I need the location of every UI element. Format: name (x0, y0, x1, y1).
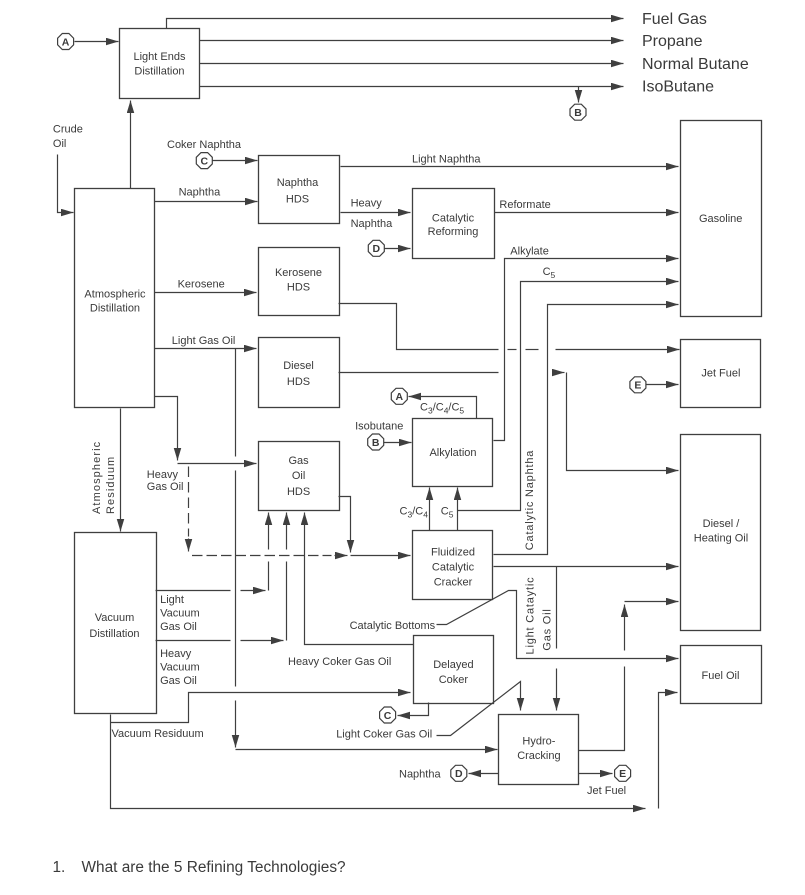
PRODUCT LABELS (large) (642, 11, 749, 96)
wire Heavy Naphtha (341, 212, 411, 214)
svg-text:1.: 1. (53, 859, 66, 876)
box Diesel / Heating Oil (681, 435, 761, 631)
wire Diesel to Diesel/Heating Oil (567, 373, 679, 471)
box Hydro-Cracking (499, 715, 579, 785)
svg-text:A: A (62, 36, 70, 48)
svg-text:Fuel Gas: Fuel Gas (642, 11, 707, 28)
svg-text:Light Ends: Light Ends (134, 51, 186, 63)
wire Normal Butane (200, 63, 624, 65)
svg-text:Heating Oil: Heating Oil (694, 533, 748, 545)
wire C3/C4 up to Alkylation (429, 488, 431, 531)
wire up to Fuel Oil (659, 693, 678, 809)
svg-text:D: D (373, 243, 381, 255)
svg-text:Gas Oil: Gas Oil (147, 481, 184, 493)
svg-text:E: E (634, 380, 641, 392)
wire Heavy Gas Oil to Gas Oil HDS (178, 463, 257, 465)
wire Heavy Gas Oil exit (155, 397, 178, 461)
svg-text:Alkylation: Alkylation (429, 447, 476, 459)
svg-text:Heavy: Heavy (147, 469, 179, 481)
wire E to Jet Fuel (647, 384, 679, 386)
svg-text:Gas Oil: Gas Oil (160, 621, 197, 633)
BOX LABELS (84, 51, 748, 762)
svg-text:Catalytic: Catalytic (432, 562, 475, 574)
svg-text:Vacuum Residuum: Vacuum Residuum (112, 728, 204, 740)
svg-text:HDS: HDS (287, 486, 310, 498)
wire jet dash 1 (508, 349, 517, 351)
wire FCC to Hydro-Cracking (556, 567, 558, 649)
box Gasoline (681, 121, 762, 317)
wire Gas Oil HDS out to junction (339, 497, 351, 553)
box Vacuum Distillation (75, 533, 157, 714)
ROTATED LABELS (91, 441, 554, 655)
wire dashed horizontal (192, 555, 332, 557)
svg-text:Fuel Oil: Fuel Oil (702, 670, 740, 682)
svg-text:Jet Fuel: Jet Fuel (701, 368, 740, 380)
node A top (58, 34, 74, 50)
svg-text:Light: Light (160, 594, 184, 606)
wire C to Naphtha HDS (213, 160, 258, 162)
node B top (570, 104, 586, 120)
svg-text:Coker: Coker (439, 674, 469, 686)
wire Kerosene HDS out (339, 304, 499, 350)
wire Crude Oil feed (58, 155, 74, 213)
svg-text:Light Gas Oil: Light Gas Oil (172, 335, 236, 347)
svg-text:Vacuum: Vacuum (160, 608, 200, 620)
wire Heavy Vacuum Gas Oil (156, 640, 231, 642)
svg-text:Naphtha: Naphtha (399, 769, 441, 781)
wire Naphtha (155, 201, 258, 203)
wire drop to B (578, 87, 580, 103)
wire dashed vertical arrowhead (188, 539, 190, 552)
wire Fuel Gas (167, 19, 624, 29)
svg-text:HDS: HDS (287, 376, 310, 388)
svg-text:Atmospheric: Atmospheric (84, 289, 146, 301)
svg-text:Hydro-: Hydro- (522, 736, 555, 748)
svg-text:Fluidized: Fluidized (431, 547, 475, 559)
svg-text:Heavy Coker Gas Oil: Heavy Coker Gas Oil (288, 656, 391, 668)
svg-text:Reformate: Reformate (499, 199, 550, 211)
node A alkylation (391, 388, 407, 404)
wire Atmospheric to Vacuum Distillation (120, 409, 122, 532)
svg-text:B: B (574, 107, 582, 119)
node C bottom (380, 707, 396, 723)
wire IsoButane (200, 86, 624, 88)
svg-text:Coker Naphtha: Coker Naphtha (167, 139, 242, 151)
wire D to Catalytic Reforming (385, 248, 411, 250)
wire A to Light Ends Distillation (75, 41, 119, 43)
svg-text:B: B (372, 437, 380, 449)
wire Alkylation out to A (409, 397, 477, 419)
wire LVGO up to Gas Oil HDS (268, 562, 270, 591)
wire Catalytic Naphtha to Gasoline (494, 305, 679, 555)
svg-text:Heavy: Heavy (160, 648, 192, 660)
svg-text:Gas Oil: Gas Oil (542, 608, 554, 650)
box Alkylation (413, 419, 493, 487)
svg-text:Catalytic: Catalytic (432, 213, 475, 225)
wire to Hydro-Cracking left (236, 749, 498, 751)
svg-text:Light Naphtha: Light Naphtha (412, 154, 481, 166)
svg-text:Diesel /: Diesel / (703, 518, 741, 530)
svg-text:Kerosene: Kerosene (275, 267, 322, 279)
node D reforming (368, 240, 384, 256)
svg-text:Kerosene: Kerosene (178, 279, 225, 291)
wire Kerosene (155, 292, 257, 294)
wire Light Naphtha to Gasoline (341, 166, 679, 168)
box Catalytic Reforming (413, 189, 495, 259)
svg-text:Distillation: Distillation (90, 303, 140, 315)
svg-text:Catalytic Bottoms: Catalytic Bottoms (350, 620, 436, 632)
wire jet dash 2 (526, 349, 539, 351)
box Jet Fuel (681, 340, 761, 408)
svg-text:E: E (619, 768, 626, 780)
box Diesel HDS (259, 338, 340, 408)
node D bottom (451, 765, 467, 781)
node E jet (630, 377, 646, 393)
svg-text:What are the 5 Refining Techno: What are the 5 Refining Technologies? (82, 859, 346, 876)
node E bottom (615, 765, 631, 781)
BOXES (75, 29, 762, 785)
wire dashed junction arrowhead (335, 555, 348, 557)
wire Atmospheric Distillation to Light Ends (130, 101, 132, 189)
svg-text:Residuum: Residuum (105, 456, 117, 514)
svg-text:Delayed: Delayed (433, 659, 473, 671)
svg-text:C3/C4/C5: C3/C4/C5 (420, 402, 464, 416)
wire C5 up to Alkylation (457, 488, 459, 531)
box Fluidized Catalytic Cracker (413, 531, 493, 600)
wire Heavy Coker Gas Oil (305, 513, 414, 645)
svg-text:Gas Oil: Gas Oil (160, 675, 197, 687)
svg-text:Crude: Crude (53, 124, 83, 136)
svg-text:Distillation: Distillation (89, 628, 139, 640)
svg-text:Naphtha: Naphtha (277, 177, 319, 189)
wire Hydro-Cracking to Diesel/Heating Oil (579, 667, 625, 751)
svg-text:D: D (455, 768, 463, 780)
wire Light Gas Oil branch down (235, 349, 237, 457)
STREAM LABELS (53, 124, 626, 798)
svg-text:Cracker: Cracker (434, 577, 473, 589)
svg-text:HDS: HDS (287, 282, 310, 294)
svg-text:Oil: Oil (53, 138, 66, 150)
node C coker naphtha (196, 153, 212, 169)
node B isobutane (368, 434, 384, 450)
svg-text:Alkylate: Alkylate (510, 246, 549, 258)
svg-text:C: C (384, 710, 392, 722)
box Light Ends Distillation (120, 29, 200, 99)
wire jet feed to Jet Fuel (556, 349, 680, 351)
wire Vacuum Residuum bottom (111, 715, 646, 809)
svg-text:Jet Fuel: Jet Fuel (587, 785, 626, 797)
svg-text:Gasoline: Gasoline (699, 213, 742, 225)
wire Reformate to Gasoline (495, 212, 679, 214)
wire Hydro-Cracking naphtha to D (469, 773, 499, 775)
svg-text:Diesel: Diesel (283, 360, 314, 372)
box Kerosene HDS (259, 248, 340, 316)
wire Diesel HDS out (339, 372, 499, 374)
wire Hydro-Cracking to E (579, 773, 613, 775)
wire HVGO up to Gas Oil HDS (286, 562, 288, 641)
wire Alkylate to Gasoline (494, 259, 679, 441)
box Atmospheric Distillation (75, 189, 155, 408)
svg-text:Normal Butane: Normal Butane (642, 56, 749, 73)
svg-text:Propane: Propane (642, 33, 703, 50)
box Fuel Oil (681, 646, 762, 704)
wire B to Alkylation (384, 442, 412, 444)
wire Delayed Coker to C (398, 703, 429, 716)
wire Light Gas Oil (155, 348, 257, 350)
svg-text:Cracking: Cracking (517, 750, 560, 762)
svg-text:IsoButane: IsoButane (642, 79, 714, 96)
wire C5 to Gasoline (458, 282, 679, 511)
CIRCLED LETTERS (58, 34, 646, 782)
box Gas Oil HDS (259, 442, 340, 511)
wire dashed vertical (188, 467, 190, 537)
box Naphtha HDS (259, 156, 340, 224)
wire Vacuum Residuum to Delayed Coker (111, 693, 411, 723)
wire FCC to Diesel/Heating Oil (494, 566, 679, 568)
svg-text:Reforming: Reforming (428, 226, 479, 238)
wire Diesel HDS out arrowhead (555, 372, 565, 374)
box Delayed Coker (414, 636, 494, 704)
svg-text:C: C (201, 156, 209, 168)
wire junction to FCC (351, 555, 411, 557)
svg-text:Vacuum: Vacuum (95, 612, 135, 624)
wire Light Vacuum Gas Oil (156, 590, 231, 592)
svg-text:HDS: HDS (286, 194, 309, 206)
svg-text:Heavy: Heavy (351, 198, 383, 210)
svg-text:Gas: Gas (289, 455, 310, 467)
QUESTION TEXT (53, 859, 346, 876)
wire Catalytic Bottoms to Fuel Oil (437, 591, 679, 659)
svg-text:Catalytic Naphtha: Catalytic Naphtha (524, 450, 536, 551)
svg-text:Atmospheric: Atmospheric (91, 441, 103, 514)
wire Light Coker Gas Oil to Hydro-Cracking (437, 682, 521, 736)
svg-text:Vacuum: Vacuum (160, 662, 200, 674)
svg-text:Naphtha: Naphtha (351, 218, 393, 230)
svg-text:Naphtha: Naphtha (179, 187, 221, 199)
svg-text:Light Cataytic: Light Cataytic (525, 577, 537, 655)
svg-text:Light Coker Gas Oil: Light Coker Gas Oil (336, 729, 432, 741)
svg-text:Oil: Oil (292, 470, 305, 482)
svg-text:Isobutane: Isobutane (355, 421, 403, 433)
svg-text:A: A (396, 391, 404, 403)
wire Propane (200, 40, 624, 42)
svg-text:Distillation: Distillation (134, 66, 184, 78)
